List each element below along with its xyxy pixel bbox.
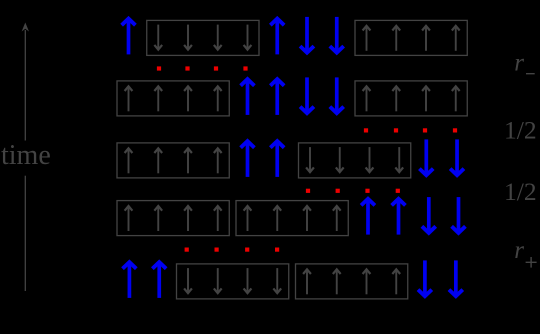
row5 spin2 blue up arrow — [152, 262, 166, 298]
row4 spin9 blue up arrow — [361, 199, 375, 235]
row2 box spins1-4 up — [117, 81, 229, 116]
row2 spin5 blue up arrow — [241, 79, 255, 115]
rate label r_plus — [514, 237, 536, 268]
svg-text:1/2: 1/2 — [504, 177, 537, 206]
rate label r_minus — [514, 49, 534, 76]
row3 box spins1-4 up — [117, 143, 229, 178]
row4 spin12 blue down arrow — [452, 197, 466, 233]
row3 spin5 blue up arrow — [241, 141, 255, 177]
svg-text:r: r — [514, 237, 524, 264]
row2 spin8 blue down arrow — [330, 77, 344, 113]
svg-text:1/2: 1/2 — [504, 116, 537, 145]
row5 spin12 blue down arrow — [449, 260, 463, 296]
row3 box spins7-10 down — [299, 143, 411, 178]
red dots between rows 4-5 — [185, 248, 280, 252]
row4 box spins1-4 up — [117, 201, 229, 236]
row2 box spins9-12 up — [355, 81, 467, 116]
red dots between rows 3-4 — [306, 189, 400, 193]
row5 box spins7-10 up — [296, 264, 408, 299]
row3 spin11 blue down arrow — [419, 139, 433, 175]
row1 spin1 blue up arrow — [122, 19, 136, 55]
row1 box spins2-5 down — [147, 20, 259, 55]
row1 box spins9-12 up — [355, 20, 467, 55]
svg-text:r: r — [514, 49, 524, 76]
row5 box spins3-6 down — [177, 264, 289, 299]
row3 spin12 blue down arrow — [450, 139, 464, 175]
red dots between rows 2-3 — [364, 128, 457, 132]
row1 spin8 blue down arrow — [330, 17, 344, 53]
row2 spin7 blue down arrow — [300, 77, 314, 113]
row4 spin10 blue up arrow — [392, 199, 406, 235]
red dots between rows 1-2 — [157, 66, 248, 70]
row3 spin6 blue up arrow — [270, 141, 284, 177]
row1 spin7 blue down arrow — [300, 17, 314, 53]
svg-text:time: time — [1, 140, 51, 171]
row5 spin1 blue up arrow — [123, 262, 137, 298]
row2 spin6 blue up arrow — [270, 79, 284, 115]
row1 spin6 blue up arrow — [270, 19, 284, 55]
time axis arrow — [22, 23, 29, 292]
row4 box spins5-8 up — [236, 201, 348, 236]
row4 spin11 blue down arrow — [422, 197, 436, 233]
row5 spin11 blue down arrow — [418, 260, 432, 296]
